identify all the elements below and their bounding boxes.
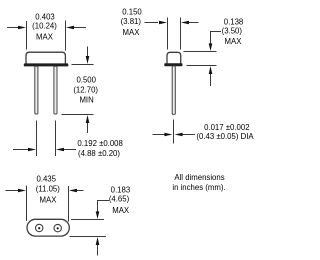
dimension 0.183 elbow leader [98, 201, 109, 213]
right pin hole [54, 224, 61, 231]
svg-text:(3.81): (3.81) [121, 17, 142, 26]
svg-text:MIN: MIN [79, 96, 93, 105]
crystal can body (end view) [167, 52, 181, 63]
dimension 0.150 left arrow [145, 21, 168, 25]
svg-text:0.192 ±0.008: 0.192 ±0.008 [77, 139, 122, 148]
svg-text:(12.70): (12.70) [73, 85, 98, 94]
left lead centerline [36, 121, 38, 156]
base flange (end view) [164, 63, 182, 66]
dimension 0.150 right extension line [180, 18, 182, 50]
crystal can body (side view) [26, 52, 65, 63]
base flange (side view) [24, 63, 69, 66]
dimension 0.017 left arrow [153, 133, 173, 137]
dimension 0.403 right extension line [65, 21, 67, 51]
svg-text:(11.05): (11.05) [36, 185, 61, 194]
base oval (bottom view) [27, 219, 69, 236]
dimension 0.435 left extension line [26, 186, 28, 222]
dimension 0.150 right arrow [181, 21, 199, 25]
dimension 0.500 bottom arrow [86, 115, 90, 133]
svg-text:(4.88 ±0.20): (4.88 ±0.20) [78, 149, 120, 158]
svg-text:All dimensions: All dimensions [174, 173, 224, 182]
left pin hole [36, 224, 43, 231]
svg-text:in inches (mm).: in inches (mm). [172, 183, 225, 192]
dimension 0.500 seat extension line [72, 64, 94, 66]
svg-text:MAX: MAX [225, 37, 243, 46]
dimension 0.138 top extension line [184, 51, 217, 53]
svg-text:MAX: MAX [36, 33, 54, 42]
svg-text:(3.50): (3.50) [222, 27, 243, 36]
dimension 0.500 top arrow [86, 47, 90, 65]
right lead centerline [55, 121, 57, 156]
svg-text:(10.24): (10.24) [32, 22, 57, 31]
svg-text:(0.43 ±0.05) DIA: (0.43 ±0.05) DIA [196, 132, 254, 141]
dimension 0.138 up arrow [209, 66, 213, 86]
dimension 0.435 left arrow [6, 189, 27, 193]
svg-text:(4.65): (4.65) [109, 194, 130, 203]
dimension 0.150 left extension line [167, 18, 169, 50]
dimension 0.183 top extension line [71, 219, 104, 221]
dimension 0.403 left extension line [26, 21, 28, 50]
svg-text:0.150: 0.150 [122, 8, 142, 17]
lead centerline (end view) [173, 120, 175, 144]
dimension 0.017 right arrow [175, 133, 195, 137]
svg-text:0.500: 0.500 [76, 76, 96, 85]
left lead (side view) [35, 66, 38, 114]
right lead (side view) [54, 66, 57, 114]
dimension 0.183 up arrow [96, 237, 100, 256]
dimension 0.183 down arrow [96, 211, 100, 219]
dimension 0.138 elbow leader [211, 32, 222, 44]
dimension 0.138 bottom extension line [187, 65, 217, 67]
svg-text:0.017 ±0.002: 0.017 ±0.002 [204, 123, 249, 132]
dimension 0.192 left arrow [13, 148, 36, 152]
svg-text:0.138: 0.138 [224, 18, 244, 27]
svg-text:MAX: MAX [40, 196, 58, 205]
svg-text:0.403: 0.403 [35, 12, 55, 21]
dimension 0.500 lead-end extension line [62, 114, 94, 116]
svg-text:0.435: 0.435 [36, 175, 56, 184]
dimension 0.192 right arrow [56, 148, 76, 152]
svg-text:MAX: MAX [123, 28, 141, 37]
dimension 0.138 down arrow [209, 43, 213, 51]
svg-text:MAX: MAX [112, 206, 130, 215]
svg-text:0.183: 0.183 [111, 185, 131, 194]
lead (end view) [172, 66, 175, 114]
dimension 0.403 left arrow [7, 26, 26, 30]
dimension 0.403 right arrow [66, 26, 86, 30]
dimension 0.435 right arrow [69, 189, 84, 193]
dimension 0.183 bottom extension line [70, 236, 107, 238]
dimension 0.435 right extension line [68, 186, 70, 222]
